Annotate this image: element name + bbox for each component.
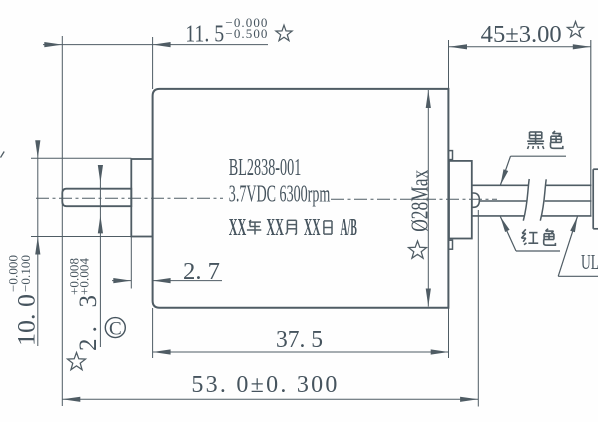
svg-text:10. 0: 10. 0 xyxy=(14,294,41,346)
svg-text:XX: XX xyxy=(229,215,247,241)
svg-text:A/B: A/B xyxy=(340,215,357,241)
svg-text:UL1571: UL1571 xyxy=(581,250,598,274)
svg-text:−0.100: −0.100 xyxy=(18,255,33,292)
svg-text:45±3.00: 45±3.00 xyxy=(481,22,562,48)
svg-text:11. 5: 11. 5 xyxy=(185,21,224,47)
svg-text:XX: XX xyxy=(266,215,284,241)
svg-text:37. 5: 37. 5 xyxy=(276,327,323,353)
svg-text:−0.500: −0.500 xyxy=(225,26,267,41)
svg-text:3.7VDC 6300rpm: 3.7VDC 6300rpm xyxy=(229,182,331,208)
svg-text:Ø28Max: Ø28Max xyxy=(408,170,434,232)
svg-text:XX: XX xyxy=(304,215,321,241)
svg-text:2. 7: 2. 7 xyxy=(183,259,220,285)
svg-text:BL2838-001: BL2838-001 xyxy=(229,155,301,181)
svg-text:C: C xyxy=(109,318,122,339)
svg-text:+0.004: +0.004 xyxy=(77,258,92,296)
